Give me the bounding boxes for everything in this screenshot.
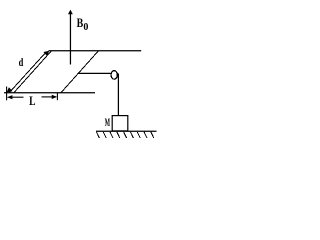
L dimension left tick bbox=[6, 87, 8, 101]
L right arrow bbox=[42, 96, 56, 98]
magnetic field B0 arrow shaft bbox=[69, 11, 71, 65]
svg-text:M: M bbox=[105, 115, 110, 129]
d dimension line bbox=[9, 52, 46, 93]
L left arrow bbox=[9, 96, 24, 98]
svg-text:d: d bbox=[19, 55, 24, 69]
string vertical bbox=[117, 74, 119, 116]
L dimension right tick bbox=[56, 93, 58, 100]
bottom rail line bbox=[4, 92, 95, 94]
svg-text:B0: B0 bbox=[77, 15, 89, 33]
block M bbox=[112, 116, 128, 131]
B0 arrowhead bbox=[68, 10, 73, 15]
ground line bbox=[96, 130, 157, 132]
ground hatching bbox=[96, 132, 153, 138]
string horizontal bbox=[78, 72, 111, 74]
d arrowhead bottom bbox=[7, 87, 13, 92]
d arrowhead top bbox=[43, 51, 49, 56]
loop left edge bbox=[14, 51, 51, 93]
top rail line bbox=[49, 50, 142, 52]
loop right edge bbox=[61, 51, 98, 93]
pulley bbox=[111, 71, 117, 80]
svg-text:L: L bbox=[29, 93, 36, 108]
